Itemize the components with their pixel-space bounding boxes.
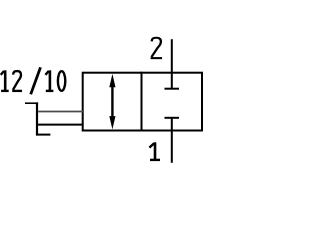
blocked port 2 seat (T-bar) xyxy=(165,88,180,90)
label 12/10 (pilot ports) xyxy=(1,67,66,94)
port 1 connection line xyxy=(171,118,173,163)
pilot connection bracket 12/10 (Z-shaped stub) xyxy=(25,102,38,104)
pilot wire lower (black) xyxy=(38,124,83,126)
slash xyxy=(31,67,41,94)
digit 1 xyxy=(1,70,9,91)
blocked port 1 seat (T-bar) xyxy=(165,117,180,119)
flow path arrow (double-headed) in position a xyxy=(109,74,115,129)
valve body right square (position b) xyxy=(142,73,203,131)
label 1 (port 1) xyxy=(149,142,160,160)
port 2 connection line xyxy=(171,39,173,88)
label 2 (port 2) xyxy=(151,38,162,58)
valve body left square (position a) xyxy=(83,73,142,131)
digit 0 xyxy=(58,71,65,91)
digit 2 xyxy=(12,71,22,91)
pilot wire upper (thin gray) xyxy=(38,111,83,113)
digit 1 xyxy=(45,70,53,91)
